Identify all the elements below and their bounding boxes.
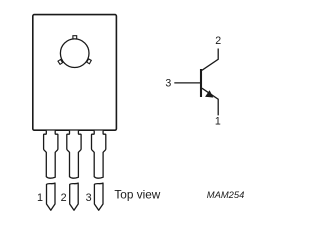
svg-text:3: 3 bbox=[86, 192, 92, 204]
tab lower-right bbox=[87, 59, 92, 64]
transistor symbol: emitter lead pin 1 bbox=[202, 88, 218, 115]
transistor symbol: collector lead pin 2 bbox=[202, 49, 218, 71]
svg-text:MAM254: MAM254 bbox=[207, 189, 245, 200]
svg-text:Top view: Top view bbox=[114, 188, 160, 202]
transistor symbol: emitter arrow bbox=[206, 91, 213, 97]
svg-text:2: 2 bbox=[61, 192, 67, 204]
svg-text:3: 3 bbox=[165, 77, 171, 89]
mounting hole bbox=[60, 39, 89, 68]
svg-text:1: 1 bbox=[215, 116, 221, 128]
pin 3 upper lead bbox=[92, 131, 106, 179]
pin 1 upper lead bbox=[44, 131, 58, 179]
package body outline bbox=[33, 15, 117, 131]
pin 1 lower lead bbox=[47, 183, 56, 210]
pin 2 upper lead bbox=[67, 131, 81, 179]
transistor symbol: base bar bbox=[200, 69, 202, 97]
tab lower-left bbox=[58, 59, 63, 64]
tab top bbox=[73, 36, 77, 39]
svg-text:2: 2 bbox=[215, 35, 221, 47]
svg-text:1: 1 bbox=[37, 192, 43, 204]
transistor symbol: base lead pin 3 bbox=[174, 82, 201, 84]
pin 2 lower lead bbox=[70, 183, 79, 210]
pin 3 lower lead bbox=[94, 183, 103, 210]
